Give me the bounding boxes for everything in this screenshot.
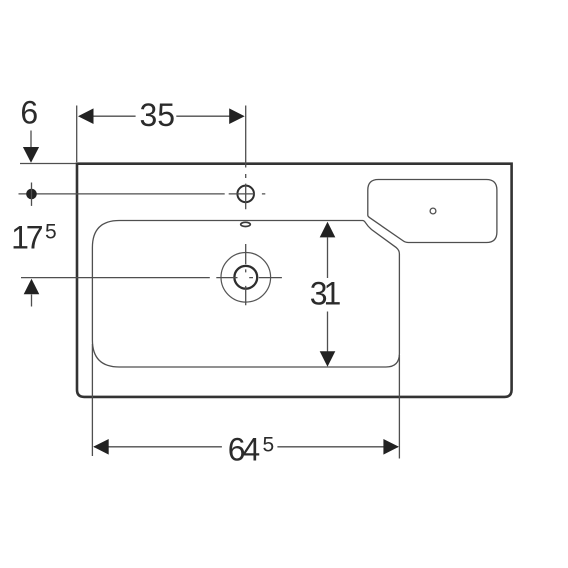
drain vertical centerline [245,244,247,305]
dim 64.5 arrow left [93,439,109,455]
tap hole horizontal centerline [19,193,266,195]
tap hole [237,186,254,203]
svg-text:64: 64 [228,432,260,468]
drain horizontal centerline [21,277,282,279]
dim 35 arrow right [229,108,245,124]
svg-text:35: 35 [140,97,176,133]
svg-text:5: 5 [45,221,57,244]
tap hole vertical centerline [245,106,247,210]
dim 35 line [93,115,230,117]
overflow slot [241,222,251,226]
shelf outline [368,180,497,243]
washbasin outer outline [77,164,512,397]
svg-text:6: 6 [20,95,38,131]
dim 31 arrow up [320,222,336,238]
dim 6 tick line [20,163,76,165]
drain outer circle [221,252,271,302]
shelf small hole [430,208,436,214]
dim 64.5 extension line right [398,355,400,459]
dim 35 extension line left [76,106,78,163]
dim 31 line lower [327,312,329,353]
dim 64.5 extension line left [91,344,93,456]
dim 17.5 arrow up [24,279,40,295]
svg-text:17: 17 [11,219,43,255]
dim 35 arrow left [78,108,94,124]
svg-text:31: 31 [310,275,341,311]
dim 6 line [30,131,32,148]
dim 6 arrow down [23,147,39,163]
drain inner circle [234,266,257,289]
dim 64.5 arrow right [383,439,399,455]
dim origin dot vertical tick [31,183,33,206]
dim origin dot [26,189,37,200]
inner basin outline [92,221,399,368]
dim 31 line upper [327,237,329,278]
dim 31 arrow down [320,351,336,367]
svg-text:5: 5 [263,433,275,456]
dim 64.5 line [94,446,398,448]
dim 17.5 line below arrow [31,295,33,307]
